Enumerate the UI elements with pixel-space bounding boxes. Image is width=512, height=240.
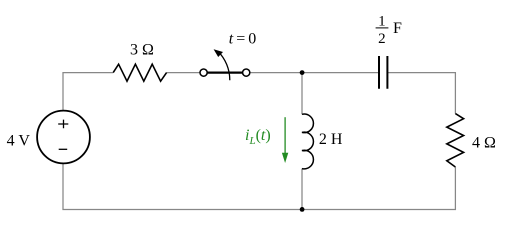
- svg-text:1: 1: [378, 13, 386, 29]
- svg-text:2: 2: [378, 31, 386, 47]
- svg-text:F: F: [393, 20, 402, 37]
- svg-text:t=0: t=0: [229, 31, 259, 48]
- svg-text:3 Ω: 3 Ω: [130, 42, 154, 59]
- svg-text:4 V: 4 V: [7, 132, 31, 149]
- svg-text:2 H: 2 H: [319, 131, 343, 148]
- svg-text:4 Ω: 4 Ω: [472, 135, 496, 152]
